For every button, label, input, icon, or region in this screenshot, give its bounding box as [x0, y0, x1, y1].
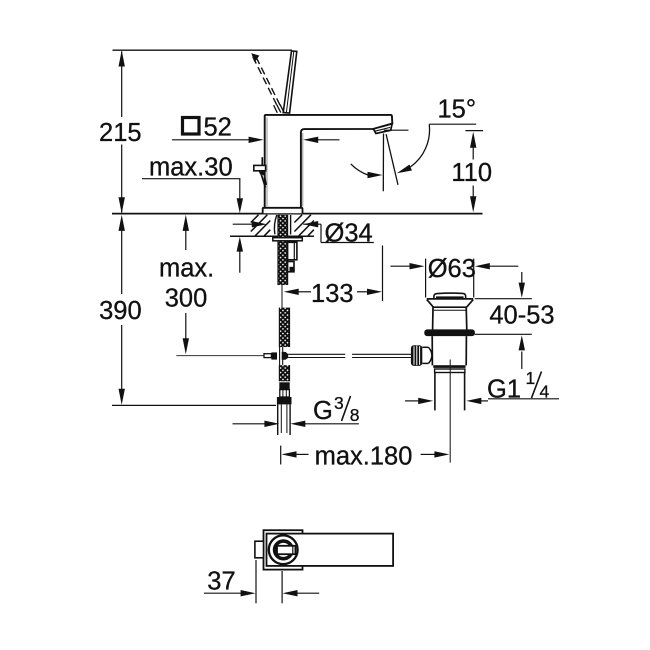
lever dashed fan strokes — [274, 104, 284, 112]
15 deg underline — [429, 123, 476, 125]
svg-text:300: 300 — [165, 285, 208, 313]
water stream slanted — [386, 134, 398, 185]
hose upper thin line — [281, 285, 283, 308]
braided hose lower — [279, 365, 289, 381]
390 bottom tick — [112, 404, 276, 406]
pop-up pull rod on body — [261, 157, 263, 165]
drain ext lines Ø63 — [426, 259, 474, 298]
braided hose — [279, 308, 289, 347]
dimension 215 vertical line — [121, 52, 123, 213]
leader 52 — [172, 139, 250, 141]
locknut lower block — [288, 262, 294, 272]
svg-text:4: 4 — [540, 382, 550, 402]
svg-text:G: G — [313, 397, 333, 425]
drain gasket — [424, 329, 475, 336]
handle logo outer circle — [269, 535, 298, 564]
drain knob knurled — [411, 345, 422, 366]
aerator horizontal ref line — [384, 129, 409, 131]
lever solid — [283, 51, 297, 113]
shank guide curve — [274, 215, 276, 234]
locknut — [288, 242, 297, 259]
coupling small rect — [264, 354, 271, 358]
swivel arc left — [351, 164, 369, 175]
dimension 215 arrows — [119, 50, 125, 213]
rod double line right — [352, 354, 411, 357]
svg-text:15°: 15° — [438, 95, 477, 123]
svg-text:G1: G1 — [487, 376, 521, 404]
dimension max.180 — [281, 446, 435, 465]
faucet inner edge lines — [267, 118, 303, 207]
handle top view: tab — [255, 541, 264, 558]
coupling black block — [271, 352, 277, 359]
svg-text:Ø63: Ø63 — [428, 255, 476, 283]
svg-text:215: 215 — [99, 119, 142, 147]
arrow at spout inner corner — [318, 139, 340, 141]
svg-text:max.30: max.30 — [149, 154, 233, 182]
svg-text:max.: max. — [159, 254, 214, 282]
max.30 leader upper — [239, 179, 241, 199]
dimension Ø63 — [390, 265, 518, 267]
drain slip ring — [435, 369, 465, 373]
drain flange — [427, 299, 473, 307]
faucet body outline — [265, 115, 393, 208]
drain black band — [433, 365, 465, 368]
hose through coupling — [280, 347, 283, 365]
hose fitting middle — [280, 390, 290, 397]
drain body upper — [433, 307, 467, 329]
swivel arc right — [411, 124, 430, 167]
aerator piece — [373, 124, 392, 134]
svg-text:Ø34: Ø34 — [325, 219, 373, 247]
svg-text:max.180: max.180 — [315, 442, 413, 470]
rod double line mid — [288, 354, 345, 357]
dimension 37 — [204, 560, 319, 603]
drain tailpipe — [435, 373, 465, 411]
lever dashed alternate — [253, 57, 281, 107]
handle logo G circle — [275, 541, 293, 559]
label square 52 symbol — [183, 118, 200, 135]
dimension G 3/8 — [233, 423, 265, 425]
svg-text:52: 52 — [204, 113, 232, 141]
svg-text:8: 8 — [350, 405, 360, 425]
svg-text:390: 390 — [99, 297, 142, 325]
handle logo bar — [277, 546, 295, 554]
pop-up rod left thin — [176, 355, 264, 357]
counter top line — [112, 213, 483, 215]
svg-text:37: 37 — [207, 568, 235, 596]
counter hatch left — [251, 215, 270, 236]
dimension max.300 — [185, 230, 187, 341]
svg-text:133: 133 — [311, 280, 354, 308]
water stream vertical — [382, 134, 384, 192]
drain body lower — [432, 336, 466, 365]
base plate — [263, 208, 303, 213]
dimension 40-53 — [475, 272, 532, 369]
hose fitting nut black — [277, 397, 292, 404]
dimension Ø34 leader — [233, 224, 374, 242]
svg-text:40-53: 40-53 — [489, 302, 554, 330]
svg-text:3: 3 — [334, 393, 344, 413]
drain plug cap — [434, 293, 466, 298]
faucet shank threaded (crosshatch) — [278, 215, 288, 285]
svg-text:110: 110 — [451, 159, 492, 187]
hole edge line right — [290, 215, 292, 235]
top reference line — [113, 49, 293, 51]
supply tube — [278, 404, 290, 435]
handle top view: square body — [264, 530, 303, 569]
handle top view: lever rect — [267, 534, 394, 566]
washer under counter — [273, 238, 303, 241]
max.30 leader lower — [239, 251, 241, 273]
drain knob neck — [422, 347, 432, 363]
svg-text:1: 1 — [526, 368, 536, 388]
dimension 133 — [298, 246, 383, 302]
dimension G1 1/4 — [405, 399, 559, 401]
dimension 390 — [121, 230, 123, 391]
max.30 underline — [142, 178, 240, 180]
lever dashed arrowhead — [251, 53, 259, 62]
dimension 110 — [465, 130, 483, 132]
counter bottom line — [230, 235, 314, 237]
drain centerline — [449, 360, 451, 463]
counter hatch right — [294, 215, 314, 236]
coupling black taper — [282, 352, 289, 360]
hose fitting black band — [279, 382, 289, 389]
